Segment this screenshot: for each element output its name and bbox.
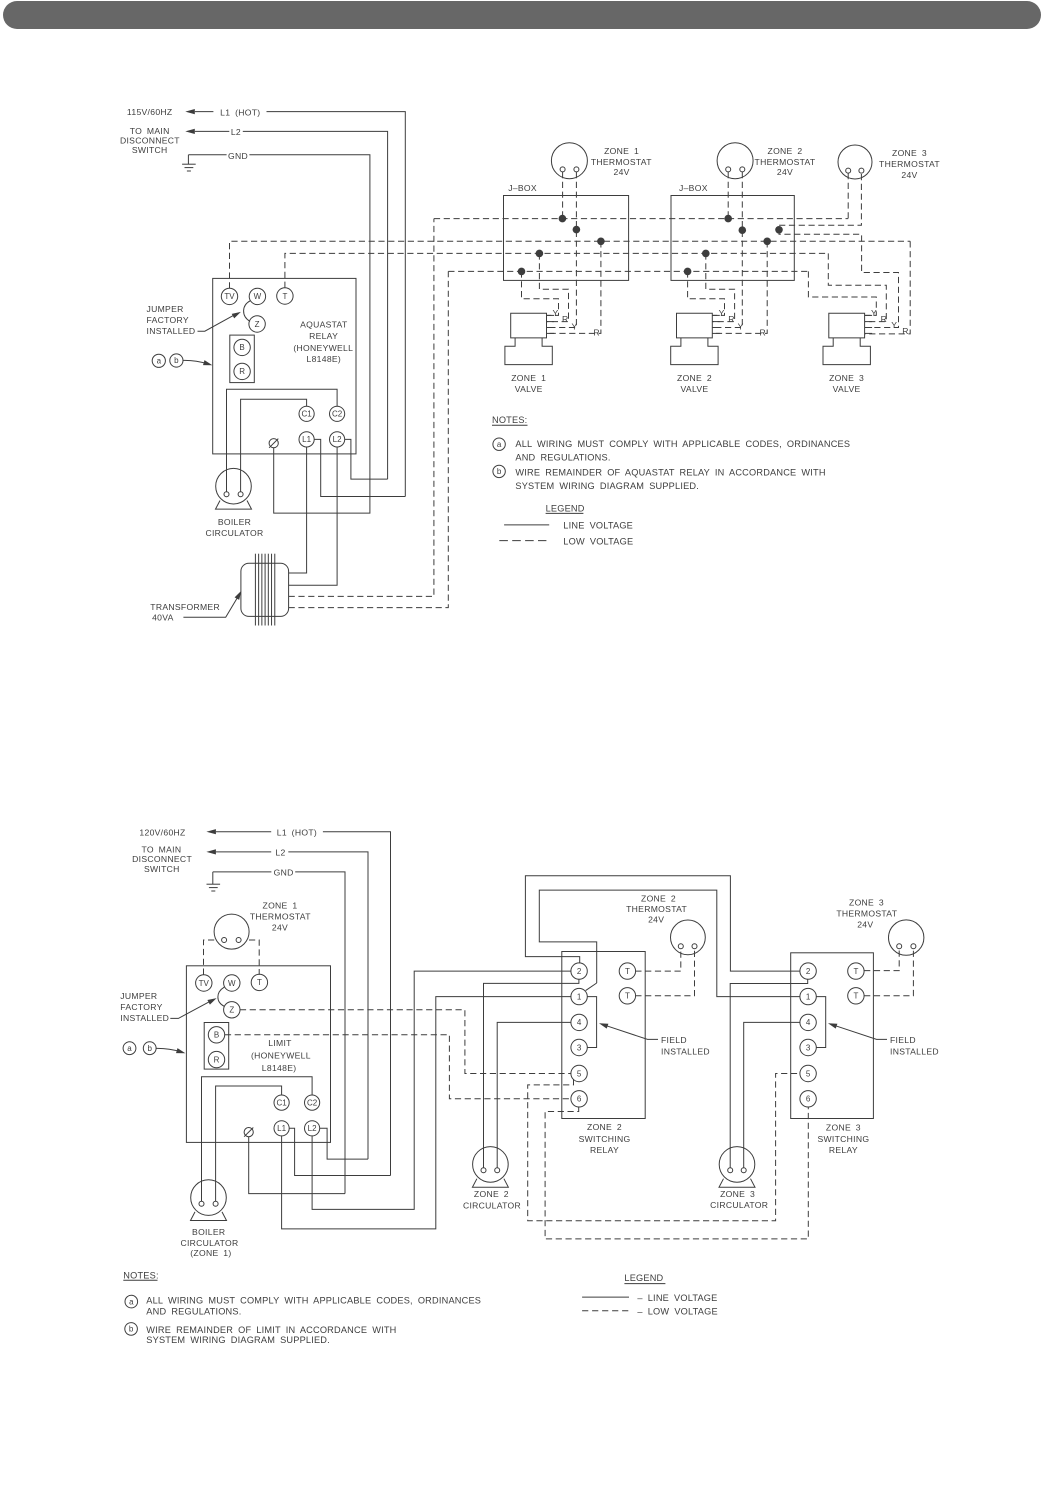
K3 terminal 2 bbox=[800, 963, 816, 979]
zone 3 thermostat TH3 bottom bbox=[889, 920, 924, 955]
svg-text:L8148E): L8148E) bbox=[262, 1063, 297, 1073]
svg-text:INSTALLED: INSTALLED bbox=[120, 1013, 169, 1023]
wire L2 feed bbox=[195, 130, 230, 132]
boiler circulator zone1 M2 bbox=[191, 1180, 227, 1216]
svg-text:CIRCULATOR: CIRCULATOR bbox=[180, 1238, 238, 1248]
K3 terminal 1 bbox=[800, 988, 816, 1004]
transformer T1 40VA bbox=[241, 563, 289, 616]
wire C1 to boiler circulator bottom bbox=[216, 1086, 282, 1201]
svg-text:C1: C1 bbox=[301, 410, 312, 419]
svg-text:THERMOSTAT: THERMOSTAT bbox=[626, 904, 687, 914]
svg-text:L2: L2 bbox=[308, 1124, 317, 1133]
svg-text:3: 3 bbox=[806, 1043, 811, 1052]
svg-text:ZONE 3: ZONE 3 bbox=[829, 373, 864, 383]
svg-text:a: a bbox=[497, 440, 502, 449]
wire bus E to valve1 Y upper bbox=[522, 271, 559, 315]
K3 terminal T upper bbox=[848, 963, 864, 979]
legend line voltage sample bbox=[504, 524, 549, 526]
zone 3 thermostat TH3 bbox=[838, 145, 872, 179]
wire bus C end to valve3 R bbox=[865, 241, 910, 334]
svg-text:a: a bbox=[129, 1297, 134, 1306]
svg-text:C1: C1 bbox=[276, 1098, 287, 1107]
svg-text:FIELD: FIELD bbox=[661, 1035, 687, 1045]
wire L2 terminal to L2 feed bottom bbox=[320, 1128, 368, 1159]
wire L2 terminal to L2 feed bbox=[345, 439, 388, 479]
K3 terminal 3 bbox=[800, 1039, 816, 1055]
L1 (HOT) feed arrow bbox=[185, 109, 195, 114]
svg-text:Z: Z bbox=[229, 1006, 234, 1015]
wire bus C to valve1 R bbox=[547, 241, 601, 333]
K3 terminal T lower bbox=[848, 988, 864, 1004]
wire splice to valve3 Y bbox=[779, 230, 899, 328]
svg-text:B: B bbox=[239, 343, 244, 352]
ground screw bbox=[269, 439, 278, 448]
svg-text:C2: C2 bbox=[307, 1098, 318, 1107]
K2 jumper 1-3 field installed bbox=[587, 997, 597, 1048]
wire thermostat1 right to valve1 Y bbox=[547, 172, 577, 328]
wire transformer to L1 terminal bbox=[289, 447, 307, 573]
svg-text:VALVE: VALVE bbox=[515, 384, 543, 394]
bus A 24V common bbox=[434, 218, 848, 220]
K2 terminal 3 bbox=[571, 1039, 587, 1055]
svg-text:a: a bbox=[127, 1044, 132, 1053]
zone 2 thermostat TH2 bbox=[717, 143, 753, 179]
svg-text:RELAY: RELAY bbox=[309, 331, 338, 341]
node splice TH1/valve1 bbox=[573, 226, 581, 234]
legend low voltage sample bottom bbox=[582, 1310, 629, 1312]
svg-text:LEGEND: LEGEND bbox=[546, 503, 585, 513]
svg-text:115V/60HZ: 115V/60HZ bbox=[127, 107, 173, 117]
svg-text:WIRE REMAINDER OF LIMIT IN: WIRE REMAINDER OF LIMIT IN ACCORDANCE WI… bbox=[146, 1325, 396, 1335]
note refs a b bbox=[152, 354, 165, 367]
note b marker bbox=[493, 465, 505, 477]
K2 terminal 5 bbox=[571, 1065, 587, 1081]
terminal Z bottom bbox=[224, 1002, 240, 1018]
terminal C1 bottom bbox=[274, 1095, 289, 1110]
svg-text:ALL WIRING MUST COMPLY WIT: ALL WIRING MUST COMPLY WITH APPLICABLE C… bbox=[515, 439, 850, 449]
terminal W bbox=[249, 288, 265, 304]
terminal C1 bbox=[299, 406, 314, 421]
wire TH1 right to T bbox=[249, 940, 259, 975]
svg-text:NOTES:: NOTES: bbox=[492, 415, 527, 425]
svg-text:24V: 24V bbox=[613, 167, 629, 177]
jumper W-Z factory installed bottom bbox=[218, 987, 225, 1006]
wire K2 T upper to TH2 left bbox=[635, 949, 681, 971]
zone 1 thermostat TH1 bbox=[551, 143, 587, 179]
svg-text:DISCONNECT: DISCONNECT bbox=[132, 854, 192, 864]
terminal R bottom bbox=[208, 1051, 224, 1067]
terminal T bottom bbox=[251, 974, 267, 990]
svg-text:TO MAIN: TO MAIN bbox=[130, 126, 170, 136]
wire bus E to valve2 Y upper bbox=[688, 271, 725, 315]
B R terminal block bottom bbox=[204, 1023, 229, 1070]
node bus E / valve2 Y bbox=[684, 268, 692, 276]
svg-text:LEGEND: LEGEND bbox=[624, 1273, 663, 1283]
svg-text:CIRCULATOR: CIRCULATOR bbox=[710, 1200, 768, 1210]
svg-text:CIRCULATOR: CIRCULATOR bbox=[463, 1201, 521, 1211]
K2 terminal T upper bbox=[619, 963, 635, 979]
terminal B bbox=[234, 339, 250, 355]
L2 feed arrow bottom bbox=[206, 849, 216, 854]
node splice TH3/valve3 bbox=[775, 226, 783, 234]
svg-text:ZONE 2: ZONE 2 bbox=[768, 146, 803, 156]
svg-text:Y: Y bbox=[719, 308, 725, 318]
svg-text:THERMOSTAT: THERMOSTAT bbox=[591, 157, 652, 167]
wire loop K2-1 to K3-1 bbox=[539, 890, 799, 997]
wire L1 to zone relays trunk bbox=[282, 997, 572, 1229]
svg-text:CIRCULATOR: CIRCULATOR bbox=[205, 528, 263, 538]
ground screw bottom bbox=[244, 1128, 253, 1137]
svg-text:24V: 24V bbox=[857, 920, 873, 930]
node bus E / valve1 Y bbox=[518, 268, 526, 276]
svg-text:TV: TV bbox=[224, 292, 235, 301]
ground symbol bottom bbox=[207, 883, 221, 885]
wire Z to relay terminals 5 bbox=[240, 1010, 571, 1074]
transformer leader arrow bbox=[183, 597, 238, 618]
svg-text:Y: Y bbox=[571, 321, 577, 331]
svg-text:6: 6 bbox=[806, 1095, 811, 1104]
note refs a b bottom bbox=[123, 1042, 136, 1055]
terminal L2 bottom bbox=[305, 1121, 320, 1136]
svg-text:ZONE 3: ZONE 3 bbox=[849, 898, 884, 908]
zone 2 thermostat TH2 bottom bbox=[671, 920, 706, 955]
wire C1 to boiler circulator bbox=[241, 399, 307, 492]
bus D T circuit bbox=[285, 253, 828, 287]
K2 terminal 6 bbox=[571, 1091, 587, 1107]
svg-text:(HONEYWELL: (HONEYWELL bbox=[293, 343, 353, 353]
svg-text:ZONE 2: ZONE 2 bbox=[677, 373, 712, 383]
wire zone3 circulator right to K3-4 bbox=[744, 1022, 801, 1167]
svg-text:R: R bbox=[881, 314, 888, 324]
K3 terminal 4 bbox=[800, 1014, 816, 1030]
svg-text:ZONE 2: ZONE 2 bbox=[587, 1122, 622, 1132]
svg-text:3: 3 bbox=[577, 1043, 582, 1052]
wire bus C to valve2 R bbox=[712, 241, 767, 333]
svg-text:DISCONNECT: DISCONNECT bbox=[120, 135, 180, 145]
header bar bbox=[3, 1, 1041, 29]
svg-text:J–BOX: J–BOX bbox=[508, 183, 537, 193]
svg-text:LOW VOLTAGE: LOW VOLTAGE bbox=[563, 536, 633, 546]
K3 terminal 6 bbox=[800, 1091, 816, 1107]
svg-text:L2: L2 bbox=[333, 435, 342, 444]
wire transformer secondary to bus A bbox=[289, 219, 434, 597]
terminal TV bbox=[221, 288, 237, 304]
svg-text:1: 1 bbox=[577, 992, 582, 1001]
wire L2 to zone relays trunk bbox=[312, 971, 571, 1209]
GND feed wire bbox=[188, 154, 226, 156]
terminal L2 bbox=[330, 432, 345, 447]
svg-text:b: b bbox=[497, 467, 502, 476]
svg-text:6: 6 bbox=[577, 1095, 582, 1104]
svg-text:5: 5 bbox=[577, 1069, 582, 1078]
svg-text:a: a bbox=[157, 357, 162, 366]
svg-text:ZONE 3: ZONE 3 bbox=[720, 1189, 755, 1199]
terminal W bottom bbox=[224, 975, 240, 991]
terminal T bbox=[277, 288, 293, 304]
svg-text:GND: GND bbox=[228, 151, 248, 161]
svg-text:JUMPER: JUMPER bbox=[147, 304, 184, 314]
svg-text:b: b bbox=[129, 1325, 134, 1334]
svg-text:4: 4 bbox=[577, 1018, 582, 1027]
K2 terminal T lower bbox=[619, 988, 635, 1004]
node bus D / valve2 bbox=[702, 250, 710, 258]
svg-text:24V: 24V bbox=[901, 170, 917, 180]
wire thermostat3 right jog bbox=[779, 174, 861, 230]
terminal Z bbox=[249, 316, 265, 332]
svg-text:ZONE 1: ZONE 1 bbox=[263, 901, 298, 911]
terminal C2 bbox=[330, 406, 345, 421]
svg-text:(HONEYWELL: (HONEYWELL bbox=[251, 1051, 311, 1061]
wire C2 to boiler circulator bbox=[227, 389, 338, 492]
svg-text:24V: 24V bbox=[648, 914, 664, 924]
K3 terminal 5 bbox=[800, 1065, 816, 1081]
L2 feed arrow bbox=[185, 129, 195, 134]
svg-text:R: R bbox=[902, 326, 909, 336]
svg-text:SYSTEM WIRING DIAGRAM SUPPL: SYSTEM WIRING DIAGRAM SUPPLIED. bbox=[515, 481, 699, 491]
svg-text:T: T bbox=[282, 292, 287, 301]
svg-text:ZONE 1: ZONE 1 bbox=[604, 146, 639, 156]
field installed leader K2 bbox=[602, 1024, 658, 1039]
svg-text:TO MAIN: TO MAIN bbox=[141, 844, 181, 854]
svg-text:BOILER: BOILER bbox=[192, 1227, 225, 1237]
wire bus E end to valve3 Y upper bbox=[808, 271, 876, 315]
svg-text:ZONE 1: ZONE 1 bbox=[511, 373, 546, 383]
svg-text:FACTORY: FACTORY bbox=[120, 1002, 162, 1012]
note ref leader arrow bottom bbox=[156, 1048, 181, 1051]
svg-text:Y: Y bbox=[552, 308, 558, 318]
svg-text:INSTALLED: INSTALLED bbox=[147, 326, 196, 336]
svg-text:R: R bbox=[562, 314, 569, 324]
svg-text:Y: Y bbox=[738, 321, 744, 331]
terminal C2 bottom bbox=[305, 1095, 320, 1110]
svg-text:C2: C2 bbox=[332, 410, 343, 419]
svg-text:JUMPER: JUMPER bbox=[120, 991, 157, 1001]
node bus D / valve1 bbox=[536, 250, 544, 258]
svg-text:THERMOSTAT: THERMOSTAT bbox=[755, 157, 816, 167]
wire TH1 left to TV bbox=[204, 940, 215, 975]
K2 switch blade to 1 bbox=[586, 983, 597, 991]
svg-text:Y: Y bbox=[891, 320, 897, 330]
bus C TV circuit bbox=[230, 241, 911, 288]
svg-text:R: R bbox=[593, 328, 600, 338]
svg-text:T: T bbox=[625, 992, 630, 1001]
wire L1 feed bottom bbox=[216, 831, 271, 833]
aquastat relay box U1 bbox=[213, 278, 356, 454]
K2 terminal 4 bbox=[571, 1014, 587, 1030]
legend low voltage sample bbox=[499, 540, 546, 542]
svg-text:THERMOSTAT: THERMOSTAT bbox=[250, 912, 311, 922]
svg-text:b: b bbox=[174, 356, 179, 365]
wire bus D to valve2 R upper bbox=[706, 253, 735, 321]
node splice TH2/valve2 bbox=[739, 226, 747, 234]
wire zone2 circulator right to K2-4 bbox=[497, 1022, 571, 1167]
svg-text:Y: Y bbox=[871, 308, 877, 318]
L1 (HOT) feed arrow bottom bbox=[206, 829, 216, 834]
svg-text:2: 2 bbox=[577, 967, 582, 976]
zone 3 circulator M4 bbox=[719, 1147, 755, 1183]
zone 1 valve V1 bbox=[511, 313, 547, 338]
jumper leader arrow bottom bbox=[170, 1000, 213, 1019]
svg-text:L2: L2 bbox=[231, 127, 241, 137]
svg-text:LINE VOLTAGE: LINE VOLTAGE bbox=[563, 521, 633, 531]
svg-text:J–BOX: J–BOX bbox=[679, 183, 708, 193]
zone 2 switching relay box K2 bbox=[562, 952, 645, 1119]
wire L2 feed bottom bbox=[216, 851, 271, 853]
note b marker bottom bbox=[125, 1323, 138, 1336]
svg-text:INSTALLED: INSTALLED bbox=[890, 1046, 939, 1056]
wire K3 T lower to TH3 right bbox=[864, 949, 913, 996]
wire zone3 circulator left to K3-2 bbox=[730, 979, 808, 1168]
jumper W-Z factory installed bbox=[244, 301, 251, 322]
svg-text:24V: 24V bbox=[777, 167, 793, 177]
wire thermostat2 right to valve2 Y bbox=[712, 172, 742, 328]
svg-text:Z: Z bbox=[255, 320, 260, 329]
svg-text:– LOW VOLTAGE: – LOW VOLTAGE bbox=[637, 1307, 717, 1317]
svg-text:R: R bbox=[760, 328, 767, 338]
limit relay box U2 bbox=[186, 966, 330, 1143]
svg-text:R: R bbox=[214, 1055, 220, 1064]
wire K2 T lower to TH2 right bbox=[635, 949, 694, 996]
terminal L1 bbox=[299, 432, 314, 447]
svg-text:W: W bbox=[228, 979, 236, 988]
svg-text:AND REGULATIONS.: AND REGULATIONS. bbox=[515, 453, 610, 463]
svg-text:R: R bbox=[728, 314, 735, 324]
svg-text:24V: 24V bbox=[272, 923, 288, 933]
field installed leader K3 bbox=[831, 1024, 887, 1039]
svg-text:SYSTEM WIRING DIAGRAM SUPPL: SYSTEM WIRING DIAGRAM SUPPLIED. bbox=[146, 1335, 330, 1345]
svg-text:T: T bbox=[853, 967, 858, 976]
svg-text:SWITCH: SWITCH bbox=[144, 864, 180, 874]
B R terminal block bbox=[230, 335, 255, 383]
svg-text:T: T bbox=[625, 967, 630, 976]
svg-text:120V/60HZ: 120V/60HZ bbox=[139, 828, 185, 838]
terminal B bottom bbox=[208, 1027, 224, 1043]
svg-text:T: T bbox=[257, 978, 262, 987]
zone 3 switching relay box K3 bbox=[791, 953, 874, 1119]
svg-text:TV: TV bbox=[199, 979, 210, 988]
svg-text:FIELD: FIELD bbox=[890, 1035, 916, 1045]
wire K2-6 to K3-6 low voltage bbox=[545, 1107, 808, 1239]
wire thermostat3 left to bus A bbox=[847, 173, 849, 219]
svg-text:BOILER: BOILER bbox=[218, 517, 251, 527]
svg-text:SWITCHING: SWITCHING bbox=[579, 1134, 631, 1144]
svg-text:W: W bbox=[254, 292, 262, 301]
svg-text:ZONE 3: ZONE 3 bbox=[892, 148, 927, 158]
K2 terminal 2 bbox=[571, 963, 587, 979]
wire L1 terminal to L1 feed bottom bbox=[289, 1128, 390, 1175]
svg-text:T: T bbox=[853, 992, 858, 1001]
svg-text:B: B bbox=[214, 1031, 219, 1040]
wire transformer to L2 terminal bbox=[289, 447, 338, 585]
svg-text:NOTES:: NOTES: bbox=[123, 1270, 158, 1280]
wire thermostat1 left to bus A bbox=[562, 172, 564, 219]
bus E 24V switched bbox=[448, 270, 808, 272]
svg-text:L2: L2 bbox=[275, 848, 285, 858]
svg-text:4: 4 bbox=[806, 1018, 811, 1027]
svg-text:5: 5 bbox=[806, 1069, 811, 1078]
wire transformer secondary to bus E bbox=[289, 271, 449, 607]
svg-text:SWITCH: SWITCH bbox=[132, 145, 168, 155]
zone 2 valve V2 bbox=[677, 313, 713, 338]
terminal L1 bottom bbox=[274, 1121, 289, 1136]
junction box 1 bbox=[504, 196, 629, 281]
wire bus D end to valve3 R upper bbox=[828, 253, 886, 321]
boiler circulator M1 bbox=[216, 468, 252, 504]
wire L1 terminal to L1 feed bbox=[314, 439, 405, 496]
note a marker bottom bbox=[125, 1295, 138, 1308]
svg-text:THERMOSTAT: THERMOSTAT bbox=[836, 909, 897, 919]
svg-text:TRANSFORMER: TRANSFORMER bbox=[150, 602, 220, 612]
svg-text:ZONE 2: ZONE 2 bbox=[641, 894, 676, 904]
terminal TV bottom bbox=[196, 975, 212, 991]
svg-text:VALVE: VALVE bbox=[681, 384, 709, 394]
svg-text:– LINE VOLTAGE: – LINE VOLTAGE bbox=[637, 1293, 717, 1303]
K3 jumper 1-3 field installed bbox=[816, 997, 826, 1048]
zone 3 valve V3 bbox=[829, 313, 865, 338]
svg-text:L1 (HOT): L1 (HOT) bbox=[277, 827, 317, 837]
zone 2 circulator M3 bbox=[473, 1147, 509, 1183]
wire loop K2-2 to K3-2 bbox=[525, 876, 799, 971]
svg-text:1: 1 bbox=[806, 992, 811, 1001]
svg-text:b: b bbox=[147, 1044, 152, 1053]
K2 terminal 1 bbox=[571, 988, 587, 1004]
wire zone2 circulator left to K2-2 bbox=[484, 979, 579, 1168]
note a marker bbox=[493, 438, 505, 450]
svg-text:THERMOSTAT: THERMOSTAT bbox=[879, 159, 940, 169]
zone 1 thermostat TH1 bottom bbox=[214, 914, 249, 949]
svg-text:INSTALLED: INSTALLED bbox=[661, 1046, 710, 1056]
wire K3 T upper to TH3 left bbox=[864, 949, 899, 971]
svg-text:L8148E): L8148E) bbox=[307, 354, 342, 364]
node bus A / TH2 bbox=[724, 215, 732, 223]
note ref leader arrow bbox=[183, 360, 207, 364]
svg-text:ALL WIRING MUST COMPLY WIT: ALL WIRING MUST COMPLY WITH APPLICABLE C… bbox=[146, 1296, 481, 1306]
svg-text:R: R bbox=[239, 367, 245, 376]
svg-text:RELAY: RELAY bbox=[590, 1145, 619, 1155]
wire C2 to boiler circulator bottom bbox=[202, 1077, 313, 1201]
svg-text:(ZONE 1): (ZONE 1) bbox=[190, 1248, 231, 1258]
svg-text:FACTORY: FACTORY bbox=[147, 315, 189, 325]
wire screw to GND feed bottom bbox=[249, 1137, 345, 1194]
svg-text:SWITCHING: SWITCHING bbox=[817, 1134, 869, 1144]
wire bus D to valve1 R upper bbox=[539, 253, 568, 321]
svg-text:2: 2 bbox=[806, 967, 811, 976]
junction box 2 bbox=[671, 196, 794, 281]
svg-text:AND REGULATIONS.: AND REGULATIONS. bbox=[146, 1306, 241, 1316]
svg-text:RELAY: RELAY bbox=[829, 1145, 858, 1155]
svg-text:VALVE: VALVE bbox=[833, 384, 861, 394]
legend line voltage sample bottom bbox=[582, 1296, 629, 1298]
svg-text:ZONE 3: ZONE 3 bbox=[826, 1122, 861, 1132]
svg-text:WIRE REMAINDER OF AQUASTAT: WIRE REMAINDER OF AQUASTAT RELAY IN ACCO… bbox=[515, 468, 825, 478]
svg-text:L1: L1 bbox=[277, 1124, 286, 1133]
wire B to relay terminals 6 bbox=[225, 1035, 571, 1099]
wire L1 feed bbox=[195, 111, 214, 113]
node bus C / valve2 R bbox=[763, 238, 771, 246]
svg-text:ZONE 2: ZONE 2 bbox=[474, 1189, 509, 1199]
svg-text:40VA: 40VA bbox=[152, 613, 174, 623]
svg-text:LIMIT: LIMIT bbox=[268, 1038, 292, 1048]
node bus A / TH1 bbox=[559, 215, 567, 223]
svg-text:AQUASTAT: AQUASTAT bbox=[300, 320, 348, 330]
svg-text:L1 (HOT): L1 (HOT) bbox=[220, 107, 260, 117]
wire K2-5 to K3-5 low voltage bbox=[528, 1074, 800, 1221]
wire thermostat2 left to bus A bbox=[727, 172, 729, 219]
ground symbol bbox=[182, 163, 196, 165]
node bus C / valve1 R bbox=[597, 238, 605, 246]
svg-text:GND: GND bbox=[274, 868, 294, 878]
terminal R bbox=[234, 363, 250, 379]
